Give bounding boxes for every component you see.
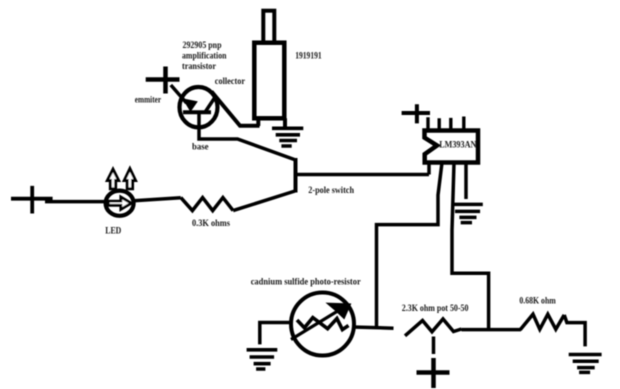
label LM393AN bbox=[439, 139, 477, 149]
transistor Q1 base bar bbox=[183, 110, 211, 114]
svg-text:1919191: 1919191 bbox=[295, 50, 322, 60]
potentiometer RV1 wiper dash bbox=[432, 337, 436, 355]
svg-text:292905 pnp: 292905 pnp bbox=[183, 40, 222, 50]
label 0.3K ohms bbox=[192, 218, 230, 228]
wire base to switch bbox=[199, 113, 294, 160]
svg-text:2-pole switch: 2-pole switch bbox=[308, 185, 354, 195]
resistor R1 0.3K zigzag bbox=[181, 198, 233, 211]
label 0.68K ohm bbox=[519, 296, 556, 306]
wire LED to resistor R1 bbox=[134, 198, 181, 201]
wire photoresistor right to pot bbox=[353, 327, 394, 328]
op-amp U1 top pins bbox=[428, 117, 464, 131]
ground G2 below U1 bbox=[453, 204, 483, 222]
label collector bbox=[215, 76, 245, 86]
component K1 body (1919191) bbox=[254, 11, 285, 128]
LED D1 light arrow 1 bbox=[107, 169, 118, 189]
label 2-pole switch bbox=[308, 185, 354, 195]
svg-text:cadnium sulfide photo-resistor: cadnium sulfide photo-resistor bbox=[251, 276, 361, 286]
power plus V2 (left supply) bbox=[11, 186, 53, 214]
photoresistor PR1 zigzag bbox=[297, 318, 349, 330]
LED D1 light arrow 2 bbox=[124, 169, 135, 189]
resistor R2 0.68K zigzag bbox=[520, 314, 564, 330]
potentiometer RV1 zigzag bbox=[405, 319, 462, 336]
LED D1 arrow inside bbox=[108, 197, 131, 209]
wire U1 pin4 to ground bbox=[464, 163, 468, 200]
wire R2 to ground bbox=[564, 315, 585, 347]
svg-text:LED: LED bbox=[105, 226, 121, 236]
svg-text:emmiter: emmiter bbox=[135, 95, 161, 105]
label 2.3K ohm pot 50-50 bbox=[402, 303, 469, 313]
transistor Q1 circle bbox=[180, 87, 218, 127]
wire switch to U1 pin1 bbox=[296, 161, 429, 175]
transistor Q1 collector lead inside bbox=[206, 97, 216, 112]
svg-text:2.3K ohm pot 50-50: 2.3K ohm pot 50-50 bbox=[402, 303, 469, 313]
power plus V3 (U1 supply) bbox=[402, 104, 430, 123]
svg-text:LM393AN: LM393AN bbox=[439, 139, 477, 149]
label emmiter bbox=[135, 95, 161, 105]
switch S1 pole bar bbox=[294, 158, 298, 193]
svg-text:transistor: transistor bbox=[182, 61, 216, 71]
photoresistor PR1 circle bbox=[291, 293, 354, 356]
svg-text:base: base bbox=[192, 142, 209, 152]
ground G4 bottom right bbox=[569, 355, 602, 373]
label 292905 pnp amplification transistor bbox=[182, 40, 227, 71]
wire plus to LED bbox=[45, 200, 106, 204]
LED D1 circle bbox=[106, 191, 134, 216]
svg-text:0.68K ohm: 0.68K ohm bbox=[519, 296, 556, 306]
wire photoresistor left to ground bbox=[260, 323, 291, 345]
wire collector to component K1 bbox=[212, 92, 260, 126]
power plus V4 (pot wiper) bbox=[417, 358, 450, 388]
svg-text:collector: collector bbox=[215, 76, 245, 86]
ground G1 below K1 bbox=[272, 128, 303, 146]
svg-text:0.3K ohms: 0.3K ohms bbox=[192, 218, 230, 228]
wire resistor to switch bbox=[233, 191, 295, 211]
label base bbox=[192, 142, 209, 152]
wire U1 pin3 to pot output node bbox=[452, 163, 489, 331]
photoresistor PR1 arrow bbox=[291, 304, 350, 340]
svg-text:amplification: amplification bbox=[182, 51, 227, 61]
wire pot to resistor R2 bbox=[462, 328, 522, 332]
op-amp U1 LM393AN body bbox=[425, 131, 479, 163]
label LED bbox=[105, 226, 121, 236]
power plus V1 (emitter supply) bbox=[146, 67, 180, 94]
label cadnium sulfide photo-resistor bbox=[251, 276, 361, 286]
wire U1 pin2 to photoresistor node bbox=[377, 163, 443, 328]
label 1919191 bbox=[295, 50, 322, 60]
ground G3 photoresistor bbox=[247, 350, 278, 369]
transistor Q1 emitter lead with arrow bbox=[171, 85, 197, 110]
